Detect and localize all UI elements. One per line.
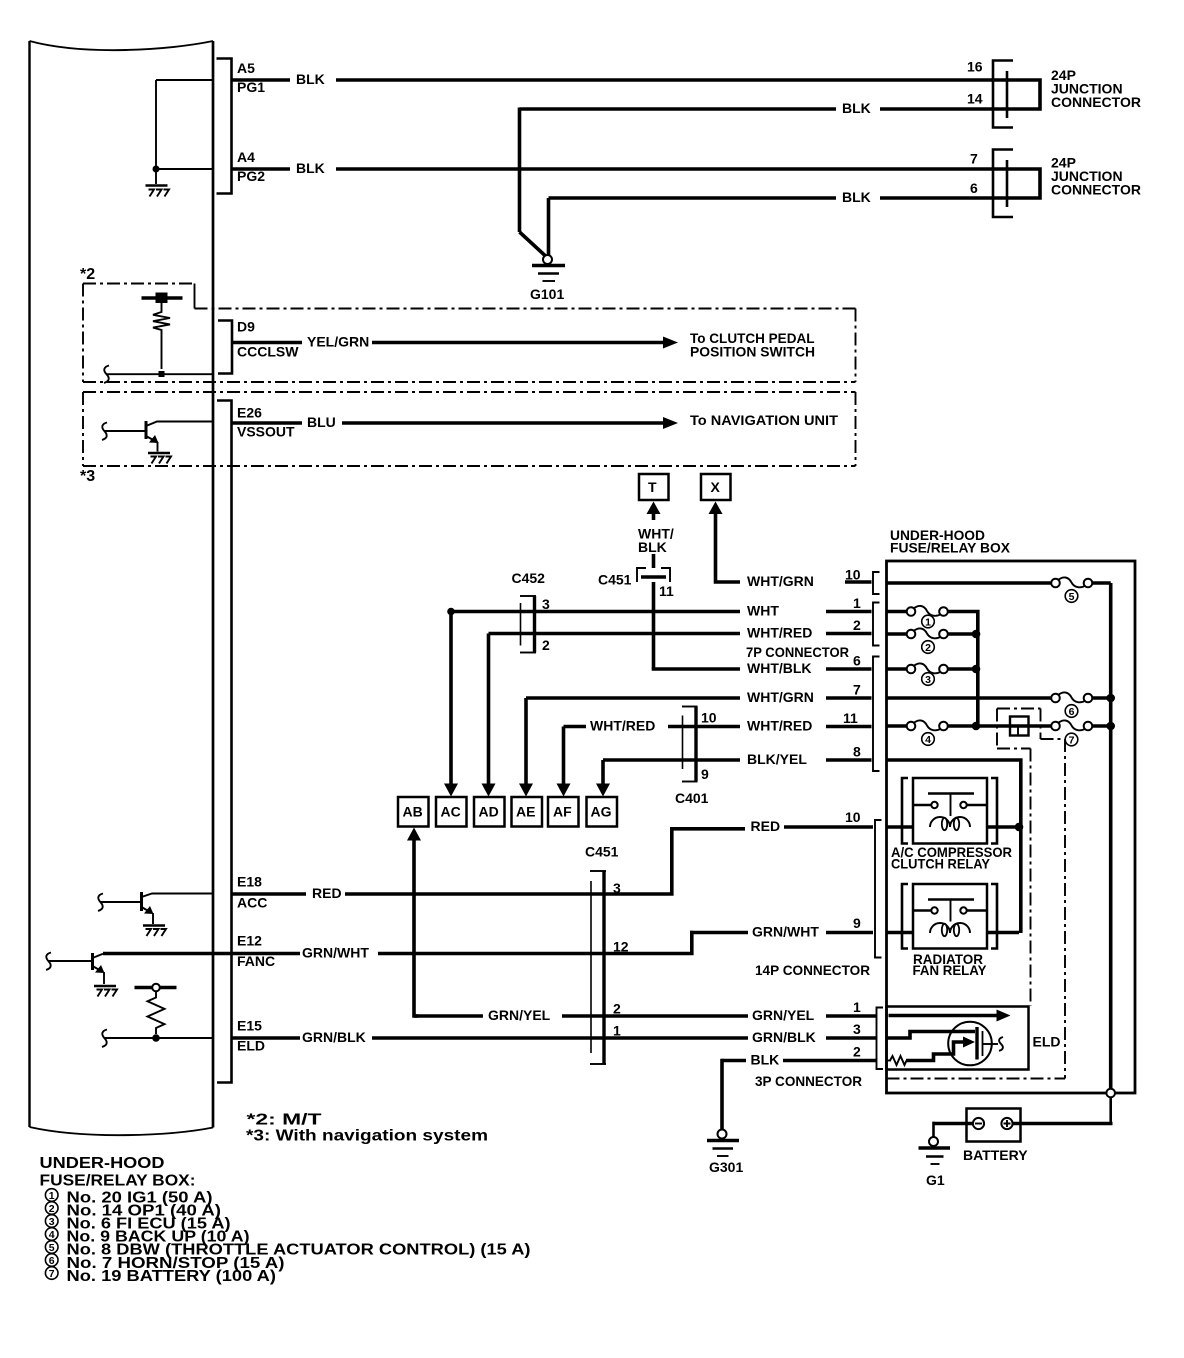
pin bracket (14P) — [875, 820, 882, 958]
svg-text:9: 9 — [853, 915, 861, 931]
svg-text:E15: E15 — [237, 1018, 262, 1034]
svg-text:E18: E18 — [237, 874, 262, 890]
svg-text:WHT/GRN: WHT/GRN — [747, 689, 814, 705]
clutch switch (inside *2) — [104, 366, 213, 383]
ground G1 — [919, 1122, 951, 1188]
svg-text:3P CONNECTOR: 3P CONNECTOR — [755, 1073, 862, 1089]
ground G101 — [530, 255, 565, 302]
svg-text:E26: E26 — [237, 405, 262, 421]
svg-text:8: 8 — [853, 744, 861, 760]
wire GRN/YEL (AB corner to C451-2) — [414, 1007, 604, 1023]
svg-text:AD: AD — [479, 804, 499, 820]
transistor (VSS buffer, inside *3) — [102, 421, 213, 464]
ELD box — [887, 1007, 1061, 1070]
svg-text:GRN/BLK: GRN/BLK — [302, 1029, 366, 1045]
svg-text:4: 4 — [925, 734, 931, 746]
pin bracket (pins 6,7,11,8) — [873, 657, 880, 772]
fuse 1 row (IG1) — [887, 606, 978, 726]
svg-text:CLUTCH RELAY: CLUTCH RELAY — [891, 856, 991, 872]
wire WHT row pin 1 (from C452-3) — [447, 595, 871, 619]
svg-text:6: 6 — [970, 180, 978, 196]
svg-text:GRN/WHT: GRN/WHT — [752, 924, 819, 940]
svg-text:G101: G101 — [530, 286, 564, 302]
radiator fan relay — [887, 884, 1020, 978]
pin E12 label — [237, 933, 275, 970]
svg-text:2: 2 — [853, 1044, 861, 1060]
pin A4 label — [237, 149, 265, 184]
svg-text:5: 5 — [1069, 591, 1075, 603]
svg-text:2: 2 — [542, 637, 550, 653]
wire BLU to navigation unit — [232, 412, 839, 430]
svg-text:*2: *2 — [80, 266, 95, 283]
pin D9 label — [237, 319, 299, 360]
svg-text:T: T — [648, 479, 657, 495]
svg-text:*2: M/T: *2: M/T — [247, 1112, 322, 1129]
fuse/relay box outline — [887, 561, 1136, 1093]
connector C451 (main, lower) — [585, 844, 629, 1065]
wire BLK row 6 — [549, 189, 1008, 255]
*3 navigation dash-dot box — [80, 392, 856, 485]
connector bracket E (long, pins E26/E18/E12/E15) — [217, 401, 232, 1083]
svg-text:FUSE/RELAY BOX: FUSE/RELAY BOX — [890, 540, 1011, 556]
node T box — [639, 474, 669, 500]
wire WHT/BLK down from C451-11 — [652, 582, 656, 669]
svg-text:1: 1 — [853, 999, 861, 1015]
svg-text:3: 3 — [853, 1021, 861, 1037]
svg-text:BLK: BLK — [842, 189, 871, 205]
svg-text:C452: C452 — [512, 570, 546, 586]
svg-text:A4: A4 — [237, 149, 255, 165]
svg-text:ACC: ACC — [237, 895, 267, 911]
svg-text:E12: E12 — [237, 933, 262, 949]
svg-text:10: 10 — [845, 809, 861, 825]
wire A5 internal ground tie — [153, 80, 214, 184]
svg-text:BLK: BLK — [638, 539, 667, 555]
svg-text:BLK: BLK — [296, 160, 325, 176]
svg-text:G301: G301 — [709, 1159, 743, 1175]
UNDER-HOOD FUSE/RELAY BOX title — [890, 527, 1011, 556]
fuse 6 row (HORN/STOP) — [887, 692, 1115, 718]
svg-text:14P CONNECTOR: 14P CONNECTOR — [755, 962, 870, 978]
ACC transistor (inside ECM) — [98, 892, 213, 936]
wire A5 BLK — [232, 71, 1008, 87]
node X box — [701, 474, 731, 500]
svg-text:3: 3 — [925, 674, 931, 686]
pin A5 label — [237, 60, 265, 95]
svg-text:AC: AC — [441, 804, 461, 820]
ELD MOSFET — [887, 1022, 1004, 1066]
svg-text:WHT/BLK: WHT/BLK — [747, 660, 812, 676]
svg-text:No. 19 BATTERY (100 A): No. 19 BATTERY (100 A) — [67, 1268, 277, 1285]
arrow into AE (from WHT/GRN row 7) — [519, 698, 533, 797]
arrow into T — [647, 502, 661, 521]
svg-text:FUSE/RELAY BOX:: FUSE/RELAY BOX: — [40, 1172, 196, 1189]
wire YEL/GRN to clutch pedal position switch — [232, 330, 815, 360]
svg-text:1: 1 — [925, 617, 931, 629]
connector bracket D9 — [218, 321, 232, 374]
pull-up resistor with square terminal (inside *2) — [142, 293, 183, 378]
svg-text:C401: C401 — [675, 790, 709, 806]
wire GRN/WHT (C451-12 to 14P pin 9) — [604, 915, 873, 954]
svg-text:C451: C451 — [598, 572, 632, 588]
svg-text:2: 2 — [853, 617, 861, 633]
svg-text:X: X — [711, 479, 721, 495]
ground G301 — [707, 1130, 743, 1176]
svg-text:3: 3 — [49, 1216, 55, 1228]
wire RED (C451-3 up to 14P pin 10) — [604, 809, 873, 896]
wire GRN/WHT (E12 to C451-12) — [103, 945, 604, 961]
wire BLK/YEL feed to relays — [887, 760, 1021, 933]
pin bracket (3P) — [877, 1008, 884, 1070]
battery — [933, 1097, 1113, 1163]
footer legend — [40, 1155, 531, 1285]
svg-text:WHT: WHT — [747, 603, 779, 619]
pin E26 label — [237, 405, 295, 440]
svg-text:4: 4 — [49, 1229, 55, 1241]
fuse 3 row (FI ECU) — [887, 663, 981, 686]
fuse 7 row (BATTERY) — [1051, 720, 1115, 746]
svg-text:UNDER-HOOD: UNDER-HOOD — [40, 1155, 165, 1172]
svg-text:BLK/YEL: BLK/YEL — [747, 751, 807, 767]
svg-text:BATTERY: BATTERY — [963, 1147, 1028, 1163]
svg-text:7: 7 — [853, 682, 861, 698]
svg-text:AG: AG — [591, 804, 612, 820]
svg-text:5: 5 — [49, 1242, 55, 1254]
A/C compressor clutch relay — [887, 778, 1024, 872]
svg-text:7P CONNECTOR: 7P CONNECTOR — [746, 644, 849, 660]
svg-text:VSSOUT: VSSOUT — [237, 424, 295, 440]
wire label WHT/BLK (to T) — [638, 526, 674, 569]
wire WHT/BLK row pin 6 — [652, 653, 872, 677]
svg-text:BLK: BLK — [842, 100, 871, 116]
24P junction connector 2 — [970, 150, 1141, 218]
wire WHT/GRN row pin 10 — [747, 567, 872, 590]
svg-text:A5: A5 — [237, 60, 255, 76]
ECM/PCM main box — [30, 41, 214, 1135]
pin bracket (pins 1-2, 7P) — [873, 603, 880, 646]
svg-text:POSITION SWITCH: POSITION SWITCH — [690, 344, 815, 360]
svg-text:2: 2 — [49, 1203, 55, 1215]
svg-text:BLU: BLU — [307, 414, 336, 430]
wire GRN/YEL (C451-2 to 3P pin 1) — [604, 999, 876, 1023]
svg-text:11: 11 — [659, 583, 674, 599]
svg-text:CONNECTOR: CONNECTOR — [1051, 182, 1141, 198]
svg-text:1: 1 — [613, 1023, 621, 1039]
svg-text:To NAVIGATION UNIT: To NAVIGATION UNIT — [690, 412, 838, 428]
svg-text:GRN/YEL: GRN/YEL — [752, 1007, 815, 1023]
svg-text:11: 11 — [843, 710, 858, 726]
connector C452 — [512, 570, 551, 653]
dash-dot box around fusible element — [997, 709, 1065, 749]
wire BLK (3P pin 2 to G301) — [722, 1044, 876, 1130]
svg-text:6: 6 — [853, 653, 861, 669]
wire BLK row 14 — [520, 100, 1008, 256]
wire WHT/RED row pin 11 — [696, 710, 872, 734]
pin E15 label — [237, 1018, 265, 1054]
arrow into AF (from WHT/RED row) — [557, 727, 571, 797]
svg-text:BLK: BLK — [751, 1052, 780, 1068]
svg-text:GRN/BLK: GRN/BLK — [752, 1029, 816, 1045]
arrow into AC (from C452-3) — [444, 612, 458, 797]
wire RED (E18 to C451-3) — [232, 885, 605, 901]
svg-text:1: 1 — [49, 1190, 55, 1202]
*2 M/T dash-dot box — [80, 266, 856, 382]
wire GRN/BLK (E15 to C451-1) — [232, 1029, 605, 1045]
battery junction circle on box edge — [1106, 1089, 1115, 1098]
chassis ground inside ECM — [146, 186, 170, 197]
svg-text:9: 9 — [701, 766, 709, 782]
pin bracket (pin 10, 7P) — [873, 572, 880, 594]
arrow into AB (from GRN/YEL row) — [407, 828, 421, 1018]
wire WHT/RED row pin 2 (from C452-2) — [489, 617, 872, 641]
note *2 / *3 — [246, 1112, 488, 1145]
svg-text:RED: RED — [751, 818, 781, 834]
svg-text:16: 16 — [967, 59, 983, 75]
wire GRN/BLK (C451-1 to 3P pin 3) — [604, 1021, 876, 1045]
boxes AB..AG — [398, 797, 617, 827]
connector C401 — [675, 707, 717, 807]
main battery bus (right side vertical) — [1109, 583, 1113, 1089]
svg-text:*3: *3 — [80, 468, 95, 485]
fusible element square — [976, 717, 1051, 736]
svg-text:GRN/YEL: GRN/YEL — [488, 1007, 551, 1023]
wire WHT/RED into C401-10 — [564, 718, 697, 734]
fuse 4 row (BACK UP) — [887, 720, 981, 746]
fuse 5 row (DBW) — [887, 577, 1111, 603]
arrow into X — [709, 502, 741, 584]
arrow into AG (from BLK/YEL row) — [596, 760, 610, 797]
svg-text:AF: AF — [553, 804, 572, 820]
pin E18 label — [237, 874, 267, 911]
svg-text:10: 10 — [845, 567, 861, 583]
svg-text:BLK: BLK — [296, 71, 325, 87]
svg-text:7: 7 — [970, 151, 978, 167]
svg-text:14: 14 — [967, 91, 983, 107]
svg-text:G1: G1 — [926, 1172, 945, 1188]
svg-text:7: 7 — [1069, 735, 1075, 747]
svg-text:6: 6 — [1069, 706, 1075, 718]
svg-text:WHT/RED: WHT/RED — [747, 625, 812, 641]
arrow into AD (from C452-2) — [482, 634, 496, 797]
svg-text:ELD: ELD — [237, 1038, 265, 1054]
svg-text:WHT/RED: WHT/RED — [747, 718, 812, 734]
svg-text:2: 2 — [925, 642, 931, 654]
fuse 2 row (OP1) — [887, 628, 981, 654]
connector C451 pin 11 (inline plug) — [598, 568, 674, 599]
wire BLK/YEL row pin 8 (via C401-9) — [603, 744, 872, 768]
FANC transistor (inside ECM) — [46, 953, 117, 997]
24P junction connector 1 — [967, 59, 1141, 128]
svg-text:10: 10 — [701, 710, 717, 726]
svg-text:FANC: FANC — [237, 953, 275, 969]
svg-text:ELD: ELD — [1033, 1034, 1061, 1050]
ELD sense resistor (inside ECM) — [102, 984, 213, 1047]
svg-text:*3: With navigation system: *3: With navigation system — [246, 1128, 488, 1145]
svg-text:C451: C451 — [585, 844, 619, 860]
svg-text:GRN/WHT: GRN/WHT — [302, 945, 369, 961]
svg-text:7: 7 — [49, 1268, 55, 1280]
svg-text:AE: AE — [516, 804, 535, 820]
svg-text:2: 2 — [613, 1001, 621, 1017]
svg-text:WHT/RED: WHT/RED — [590, 718, 655, 734]
wire WHT/GRN row pin 7 — [526, 682, 872, 706]
svg-text:1: 1 — [853, 595, 861, 611]
svg-text:WHT/GRN: WHT/GRN — [747, 573, 814, 589]
svg-text:RED: RED — [312, 885, 342, 901]
svg-text:3: 3 — [542, 596, 550, 612]
svg-text:CONNECTOR: CONNECTOR — [1051, 94, 1141, 110]
svg-text:D9: D9 — [237, 319, 255, 335]
svg-text:YEL/GRN: YEL/GRN — [307, 334, 369, 350]
connector bracket A (pins A5/A4) — [217, 59, 232, 194]
svg-text:FAN RELAY: FAN RELAY — [913, 962, 988, 978]
svg-text:6: 6 — [49, 1255, 55, 1267]
wire A4 BLK — [232, 160, 1008, 176]
dash-dot verticals (relay/ELD enclosure) — [887, 739, 1066, 1079]
svg-text:AB: AB — [403, 804, 423, 820]
svg-text:CCCLSW: CCCLSW — [237, 344, 299, 360]
